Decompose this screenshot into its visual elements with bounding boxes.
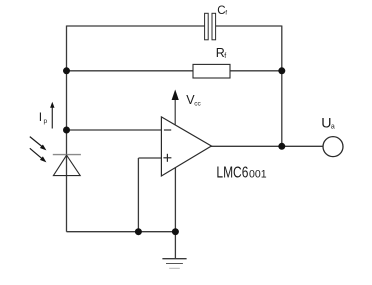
junction node: right rail / output <box>278 143 285 150</box>
svg-text:I: I <box>39 110 42 124</box>
light arrow 1 <box>30 137 47 151</box>
svg-text:f: f <box>225 10 227 17</box>
op-amp plus sign <box>163 154 171 162</box>
current Ip arrow <box>51 105 53 129</box>
wire bottom rail <box>67 231 176 233</box>
capacitor Cf <box>205 13 216 40</box>
op-amp U1 triangle <box>161 117 211 176</box>
wire top right segment from capacitor <box>216 25 282 27</box>
wire non-inverting input horizontal <box>139 157 162 159</box>
label Vcc <box>186 93 201 108</box>
junction node: left rail / feedback <box>63 67 70 74</box>
label Ip <box>39 110 48 125</box>
svg-text:p: p <box>44 118 48 125</box>
photodiode D1 cathode bar <box>53 154 81 156</box>
label Cf <box>217 5 227 17</box>
photodiode D1 triangle <box>53 155 80 175</box>
svg-text:LMC6: LMC6 <box>216 164 248 181</box>
wire op-amp V- pin down <box>174 166 176 259</box>
junction node: bottom / ground <box>172 228 179 235</box>
label Ua <box>321 116 335 132</box>
wire inverting input <box>67 129 162 131</box>
wire non-inverting input vertical drop <box>137 158 139 232</box>
Vcc supply arrow <box>174 97 176 125</box>
ground <box>162 259 186 269</box>
junction node: left rail / inverting input <box>63 127 70 134</box>
wire feedback mid: left rail to resistor <box>67 70 194 72</box>
svg-text:a: a <box>331 124 335 131</box>
resistor Rf <box>193 64 230 78</box>
svg-text:f: f <box>224 53 226 60</box>
junction node: right rail / resistor <box>278 67 285 74</box>
wire top left segment to capacitor <box>67 25 205 27</box>
svg-text:cc: cc <box>194 101 201 108</box>
light arrow 2 <box>30 148 47 162</box>
label LMC6001 <box>216 164 266 181</box>
wire right vertical rail <box>281 26 283 147</box>
wire resistor to right rail <box>230 70 282 72</box>
wire left vertical rail <box>66 26 68 232</box>
label Rf <box>216 46 226 60</box>
op-amp minus sign <box>164 129 171 131</box>
junction node: bottom / non-inverting drop <box>135 228 142 235</box>
wire output <box>211 145 323 147</box>
output terminal circle Ua <box>323 137 343 157</box>
svg-text:001: 001 <box>249 168 267 180</box>
